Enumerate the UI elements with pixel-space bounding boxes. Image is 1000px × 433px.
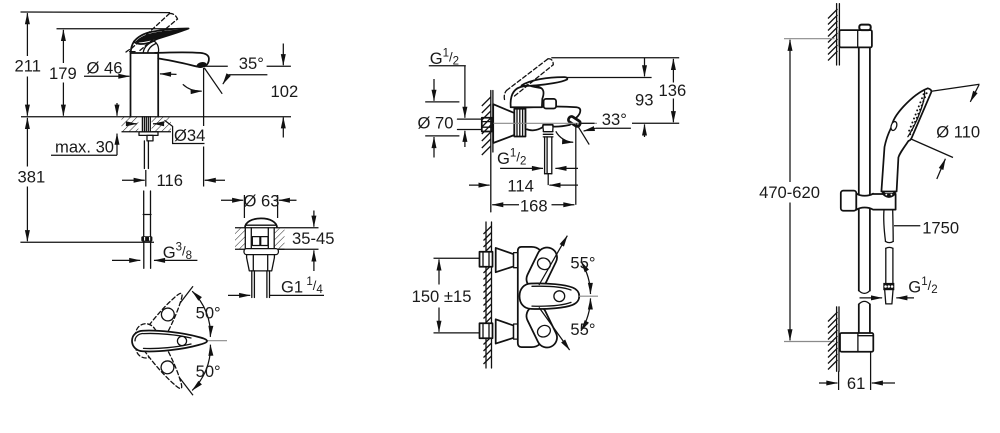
bottom escutcheon	[496, 319, 514, 343]
valve dome cap	[245, 218, 277, 227]
FIGURE 1c : handle top view	[131, 286, 227, 395]
hose end tube	[143, 242, 145, 269]
inlet pipe stub	[458, 118, 484, 120]
svg-text:Ø 70: Ø 70	[418, 113, 454, 132]
angle arc upper	[581, 262, 591, 295]
dashed handle raised	[132, 288, 190, 362]
valve body in hole	[244, 228, 246, 250]
top wall with hatching	[836, 4, 838, 65]
cartridge cap	[511, 86, 544, 108]
D34 hole arrows	[127, 123, 138, 125]
hose connector below body	[543, 124, 554, 131]
hose nut (dark)	[141, 236, 152, 241]
top bracket	[839, 30, 872, 47]
svg-text:35-45: 35-45	[292, 229, 334, 248]
dimension D110	[932, 84, 980, 91]
55deg line lower	[539, 307, 570, 350]
hand shower head	[881, 88, 931, 191]
dimension 381	[26, 118, 28, 167]
body core	[518, 247, 545, 347]
handle rotation lines 50deg	[159, 286, 193, 331]
spout outlet aerator	[196, 61, 207, 69]
dimension 168	[492, 204, 519, 206]
dimension 114	[469, 184, 490, 186]
svg-text:50°: 50°	[196, 362, 221, 381]
counter section with hatching	[235, 227, 285, 229]
wall strip with hatching	[485, 222, 487, 368]
extension line below hose	[547, 174, 549, 185]
spout angle line	[576, 123, 589, 144]
label 1750 with leader	[894, 225, 920, 227]
bottom bracket	[840, 333, 873, 352]
central lever knob	[520, 283, 580, 309]
spout	[155, 52, 209, 66]
bottom wall with hatching	[836, 307, 838, 371]
gray extension bottom	[784, 341, 834, 343]
lever hole	[554, 291, 565, 302]
dimension 35-45	[285, 227, 319, 229]
handle base	[131, 42, 134, 52]
FIGURE 1 : basin mixer side view	[15, 12, 299, 268]
svg-text:470-620: 470-620	[759, 183, 820, 202]
escutcheon cone	[493, 104, 514, 143]
svg-text:max. 30: max. 30	[55, 137, 114, 156]
svg-text:50°: 50°	[196, 303, 221, 322]
spray nozzle dots	[908, 92, 927, 135]
spray face inner line	[908, 90, 925, 136]
spout angle line	[204, 68, 222, 94]
column top line	[131, 52, 159, 54]
mixer body	[526, 107, 581, 131]
dimension 93	[644, 58, 646, 77]
shower hose upper	[884, 210, 886, 242]
svg-text:35°: 35°	[239, 54, 264, 73]
gray centerline	[187, 340, 228, 342]
rail top cap	[859, 25, 870, 31]
svg-text:114: 114	[507, 177, 533, 196]
threaded tailpiece	[251, 271, 253, 298]
svg-text:55°: 55°	[570, 320, 595, 339]
svg-text:102: 102	[271, 82, 299, 101]
knurled connector nut	[514, 109, 525, 137]
lever blade	[522, 77, 568, 86]
svg-text:33°: 33°	[602, 110, 627, 129]
shower rail	[858, 47, 860, 290]
svg-text:61: 61	[847, 374, 865, 393]
counter hatching left	[122, 117, 139, 132]
svg-text:Ø 46: Ø 46	[87, 59, 123, 78]
hose end cone	[885, 290, 893, 304]
dimension D70	[425, 101, 459, 103]
FIGURE 2b : bath mixer front view	[412, 222, 598, 368]
dimension 102	[282, 44, 284, 66]
gray extension top	[784, 38, 835, 40]
extension line from spout outlet	[203, 68, 205, 126]
union nut	[482, 118, 492, 132]
dimension 61	[838, 371, 840, 390]
55deg line upper	[539, 236, 567, 285]
lever dashed raised	[507, 59, 549, 91]
svg-text:55°: 55°	[570, 254, 595, 273]
pause button	[890, 121, 898, 131]
ref line top (211 level)	[21, 11, 171, 14]
dimension 211	[26, 13, 28, 56]
handle lever dark band	[135, 29, 187, 43]
ref line outlet level black part	[579, 122, 595, 124]
FIGURE 1b : drain valve	[221, 191, 334, 297]
faucet column	[130, 53, 132, 117]
svg-text:93: 93	[635, 90, 653, 109]
spout swivel arc	[183, 84, 202, 91]
top escutcheon	[496, 248, 514, 272]
ref line lever level	[566, 77, 652, 79]
svg-text:Ø 110: Ø 110	[936, 123, 980, 142]
extension line below outlet	[575, 126, 577, 205]
handle pivot hole	[177, 336, 186, 345]
diverter knob	[544, 99, 557, 109]
counter hatching right	[152, 117, 171, 132]
bottom inlet hex nut	[480, 323, 493, 338]
svg-text:150 ±15: 150 ±15	[412, 287, 472, 306]
ref line dashed-lever level	[551, 57, 679, 59]
dimension 179	[62, 30, 64, 63]
mounting shank	[141, 117, 143, 132]
gray centerline	[579, 295, 598, 297]
spout swivel arc	[556, 131, 573, 142]
hose nut (dark knurled)	[883, 283, 894, 290]
dimension 116	[122, 179, 145, 181]
dimension 150 +-15	[434, 257, 481, 259]
bottom lobe (lever down position)	[523, 303, 560, 351]
washer	[244, 249, 278, 255]
svg-text:Ø34: Ø34	[174, 126, 205, 145]
dimension D63	[243, 195, 245, 218]
fastening nut	[139, 132, 158, 136]
dimension 136	[672, 59, 674, 83]
top lobe (lever up position)	[523, 244, 560, 292]
wall line with hatching	[490, 91, 492, 212]
supply hose upper	[143, 141, 145, 169]
svg-text:1750: 1750	[922, 219, 959, 238]
angle arc lower	[581, 298, 591, 331]
gray reference line through body	[494, 122, 598, 124]
FIGURE 2 : bath mixer side view	[418, 48, 687, 216]
shower handle in holder	[882, 191, 897, 198]
handle lever outline	[134, 28, 189, 43]
top inlet hex nut	[480, 252, 493, 267]
counter top line	[21, 116, 291, 118]
supply hose lower	[143, 191, 145, 236]
svg-text:179: 179	[49, 64, 77, 83]
shower hose lower	[885, 248, 887, 283]
handle top view solid	[132, 331, 207, 352]
svg-text:116: 116	[157, 171, 183, 190]
angle arc upper	[192, 291, 210, 337]
svg-text:Ø 63: Ø 63	[244, 191, 280, 210]
lock nut	[247, 255, 275, 271]
svg-text:211: 211	[15, 57, 41, 76]
dashed handle lowered	[131, 320, 189, 394]
bottom ref line (381)	[20, 241, 154, 243]
dimension 470-620	[789, 40, 791, 182]
FIGURE 3 : shower rail set	[759, 4, 980, 393]
hose outlet tube	[544, 137, 546, 174]
angle arc lower	[192, 345, 210, 391]
handle dashed (raised position)	[132, 14, 170, 49]
svg-text:136: 136	[659, 81, 687, 100]
svg-text:168: 168	[520, 196, 548, 215]
slider holder	[841, 191, 857, 211]
svg-text:381: 381	[18, 168, 46, 187]
ref line 179 level	[57, 28, 186, 30]
spout outlet	[567, 115, 581, 127]
